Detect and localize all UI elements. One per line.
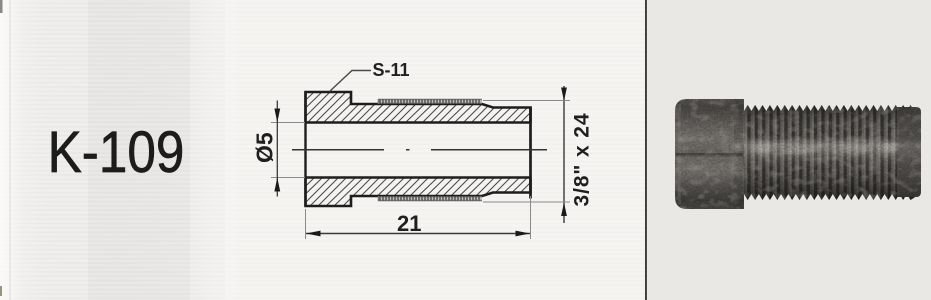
photo hex bright speck — [733, 142, 741, 152]
photo thread highlights — [733, 140, 898, 155]
photo hex head — [675, 99, 744, 209]
background drawing panel — [225, 0, 646, 300]
O5 top arrow (down) — [274, 109, 280, 123]
thread crest top line — [379, 100, 483, 105]
hatch lower band — [261, 178, 560, 206]
leader S-11 — [330, 71, 372, 92]
21 left arrow — [306, 231, 321, 237]
21 right arrow — [516, 231, 531, 237]
arrows — [274, 88, 567, 237]
bore top line — [306, 121, 531, 123]
extension line 21 left — [305, 209, 307, 239]
background left panel — [0, 0, 225, 300]
O5 bottom arrow (up) — [274, 178, 280, 192]
photo hex left edge light — [678, 104, 681, 204]
extension lines 3/8 — [483, 101, 570, 203]
thread tick band top — [379, 100, 483, 105]
svg-text:21: 21 — [397, 211, 421, 236]
svg-text:3/8" x 24: 3/8" x 24 — [571, 113, 594, 207]
dim line O5 — [276, 101, 278, 197]
svg-text:Ø5: Ø5 — [252, 132, 278, 163]
centerline — [292, 149, 547, 151]
dim line 3/8x24 — [563, 86, 565, 223]
photo hex lower light band — [676, 157, 743, 170]
faint vertical edge line — [10, 0, 11, 300]
extension line 21 right — [530, 196, 532, 239]
lower section outline — [306, 178, 531, 207]
svg-text:S-11: S-11 — [373, 60, 410, 80]
3/8 bottom arrow (up) — [561, 203, 567, 217]
left panel soft tonal bands — [0, 0, 235, 300]
hatch upper band — [259, 92, 568, 122]
svg-text:K-109: K-109 — [48, 119, 185, 185]
upper section outline — [306, 92, 531, 123]
left face line across bore — [304, 92, 306, 206]
bore extension lines left — [271, 123, 305, 178]
background photo panel — [646, 0, 931, 300]
scan edge mark bottom-left — [0, 286, 2, 296]
thread crest bottom line — [379, 196, 483, 201]
photo thread shaft with teeth — [744, 105, 920, 200]
photo hex right shadow band — [734, 99, 743, 209]
faint darker column in left panel — [88, 0, 190, 300]
thread tick band bottom — [379, 196, 483, 201]
scan edge mark top-left — [0, 0, 3, 13]
3/8 top arrow (down) — [561, 88, 567, 102]
photo thread smooth tip — [897, 107, 921, 197]
photo hex groove line — [676, 153, 743, 156]
end face line — [529, 107, 532, 199]
divider line — [645, 0, 647, 300]
bore bottom line — [306, 176, 531, 178]
dim line 21 — [306, 233, 530, 235]
